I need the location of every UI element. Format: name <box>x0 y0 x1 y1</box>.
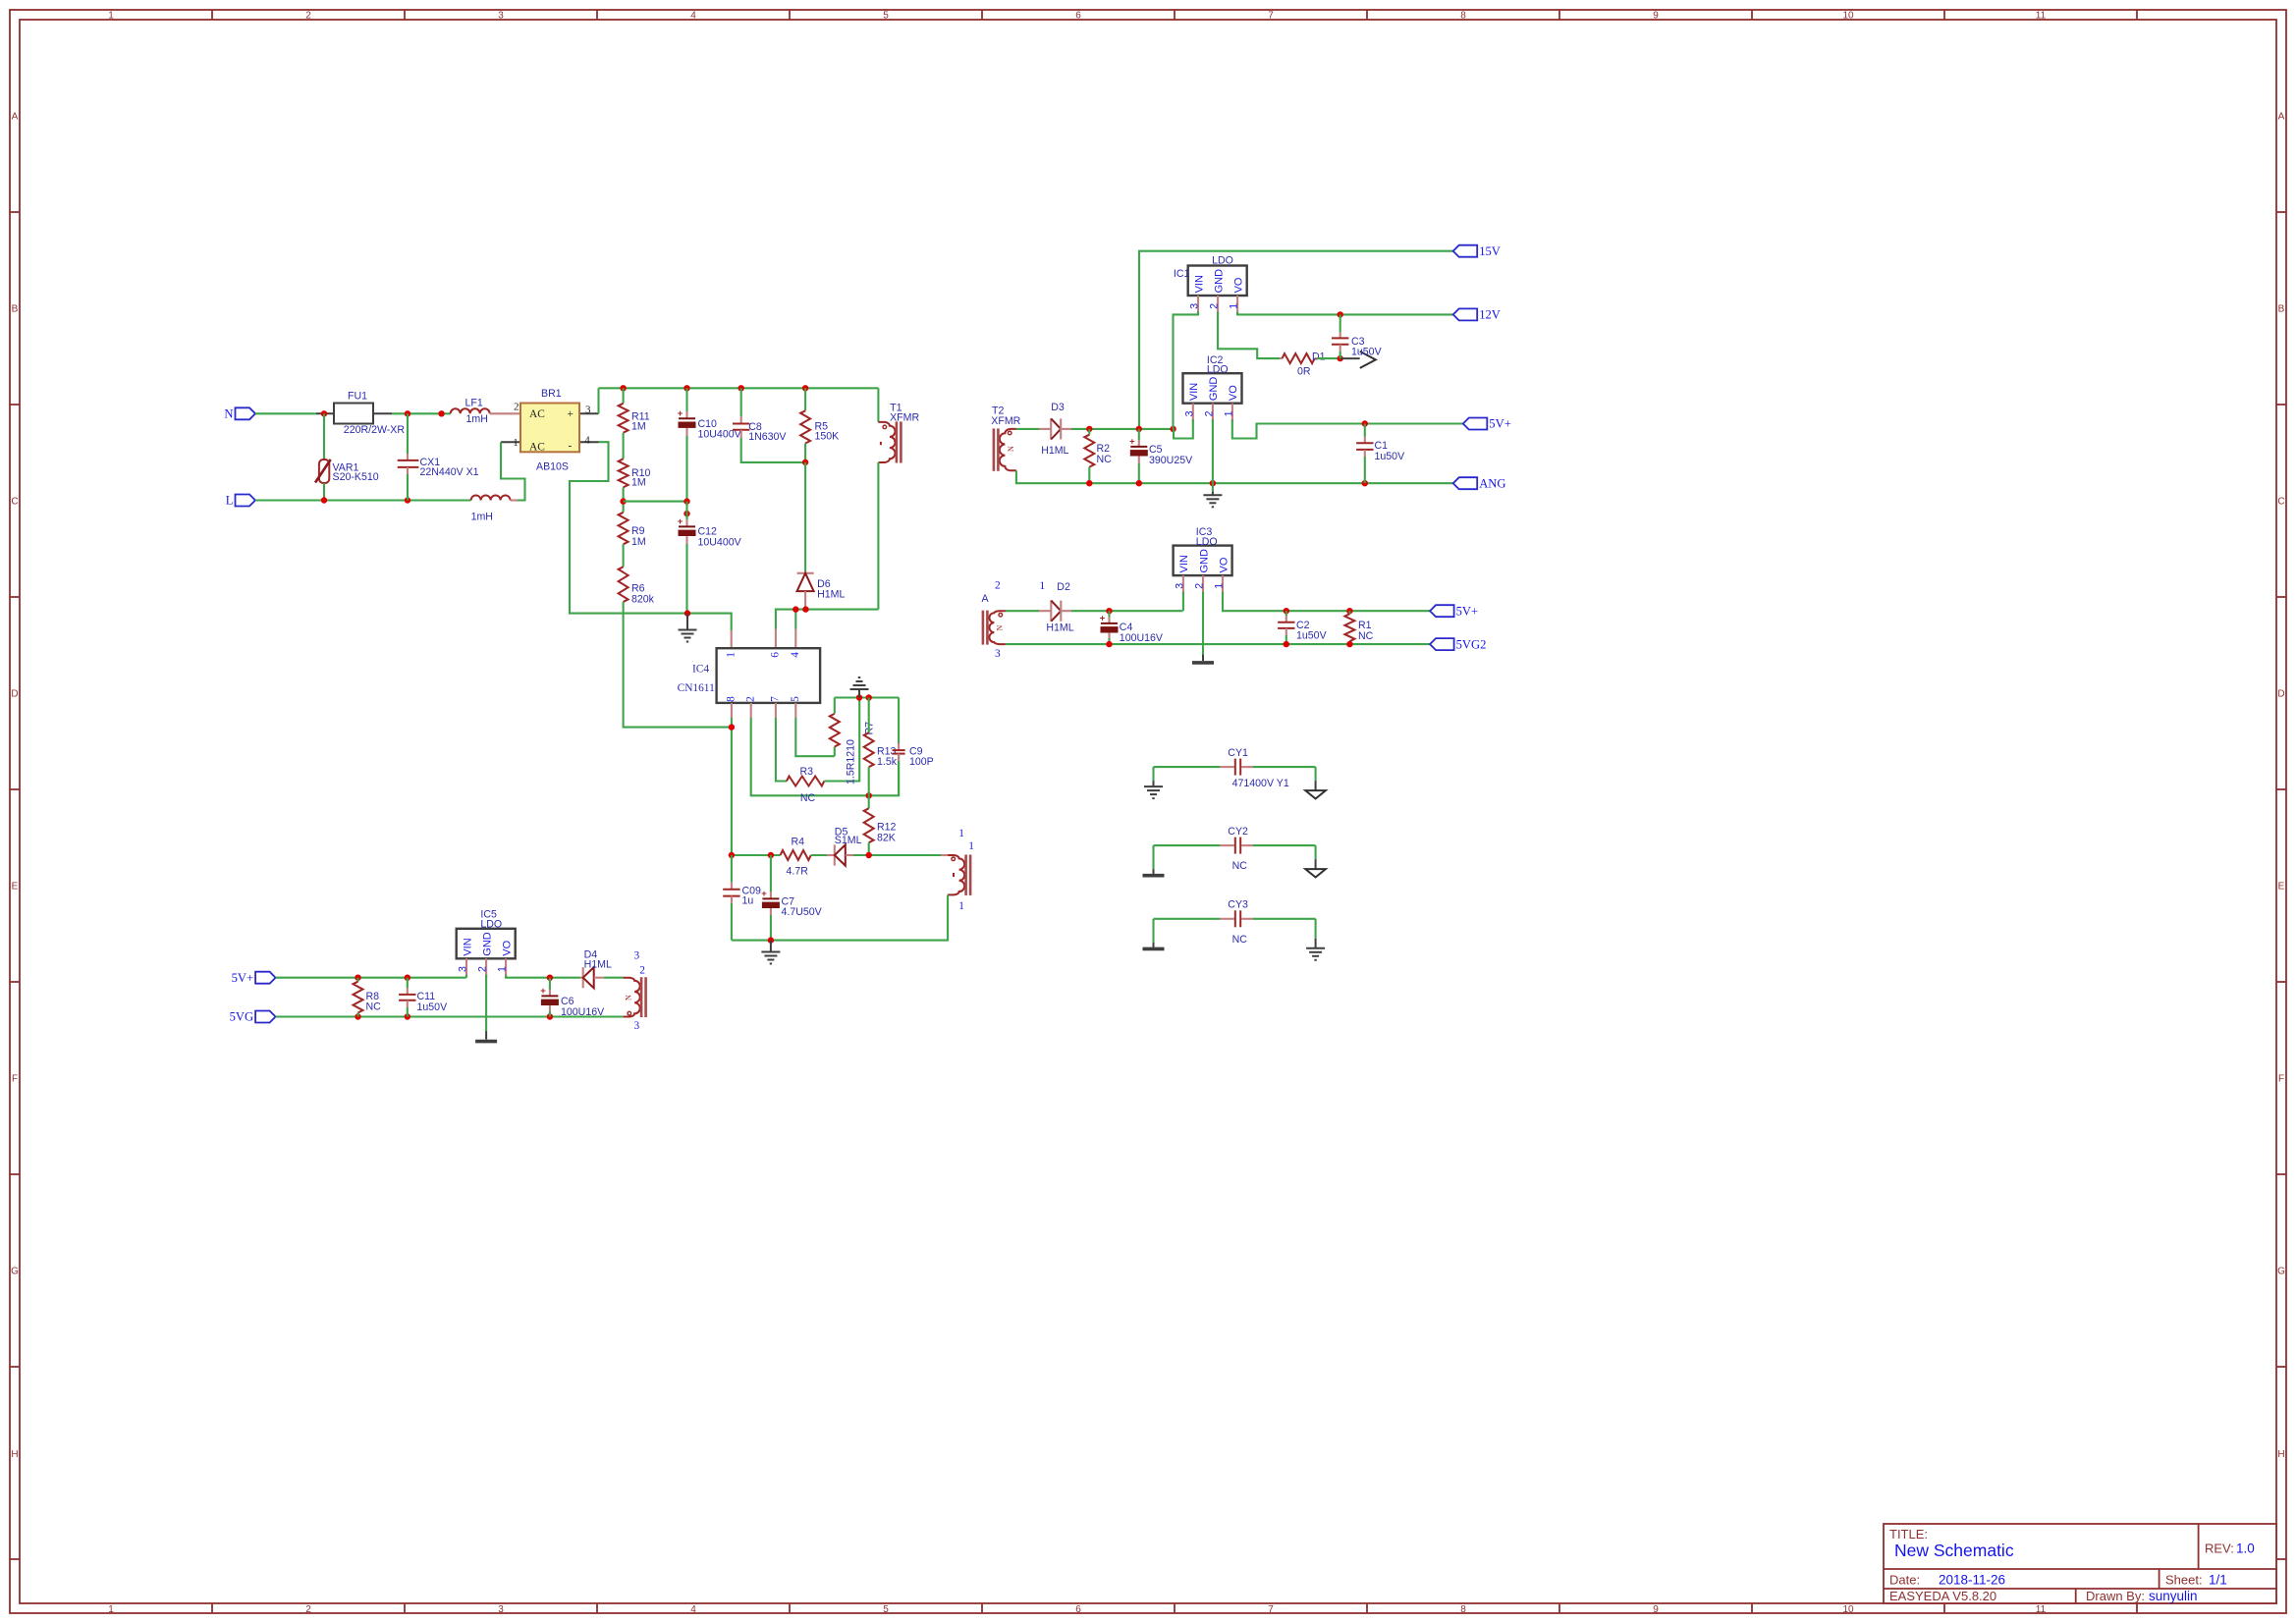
wire IC3 GND to ground <box>1202 592 1204 655</box>
capacitor C3 <box>1332 314 1383 358</box>
svg-text:2: 2 <box>744 696 756 702</box>
ground right of CY1 <box>1305 767 1326 798</box>
wire IC3 VO to 5V+ <box>1223 592 1430 612</box>
svg-text:CY3: CY3 <box>1228 899 1248 911</box>
ground right of CY2 <box>1305 845 1326 877</box>
capacitor CY2 <box>1154 826 1316 872</box>
svg-text:100U16V: 100U16V <box>1120 632 1164 644</box>
svg-text:5VG: 5VG <box>230 1010 254 1024</box>
wire IC4 pins 6,4 / D6 / T1 return <box>776 610 879 629</box>
svg-text:9: 9 <box>1653 1604 1659 1615</box>
svg-text:1: 1 <box>513 437 519 449</box>
svg-text:G: G <box>2277 1267 2285 1277</box>
wire IC4 pin5 to R7 <box>795 718 835 756</box>
ground (earth) at C12 bottom <box>679 614 697 642</box>
ground left of CY1 <box>1144 767 1163 798</box>
svg-text:CN1611: CN1611 <box>678 682 715 694</box>
resistor R12 <box>864 795 897 855</box>
svg-text:8: 8 <box>726 696 738 702</box>
wire IC5 VIN <box>465 975 467 978</box>
svg-text:4: 4 <box>790 652 801 658</box>
svg-text:1: 1 <box>108 11 114 22</box>
ground (bar) IC3 <box>1192 655 1214 663</box>
resistor R5 <box>800 388 839 462</box>
wire BR1 pin4 to IC4 pin1 <box>570 442 732 630</box>
port 5V+ <box>1463 418 1488 430</box>
wire D3 to IC1 VIN node <box>1071 428 1174 430</box>
svg-text:6: 6 <box>770 652 782 658</box>
svg-text:1.5k: 1.5k <box>877 756 898 768</box>
svg-text:2: 2 <box>1209 303 1221 309</box>
resistor D1 (0R) <box>1280 352 1326 378</box>
wire IC2 VO to 5V+ <box>1232 419 1463 438</box>
node row: R4 / D5 <box>732 854 781 856</box>
svg-text:E: E <box>12 882 19 893</box>
svg-text:220R/2W-XR: 220R/2W-XR <box>344 424 406 436</box>
svg-text:1M: 1M <box>631 477 646 489</box>
capacitor C09 <box>723 855 761 941</box>
svg-text:1u50V: 1u50V <box>417 1001 449 1013</box>
svg-text:N: N <box>996 625 1005 631</box>
svg-text:4: 4 <box>690 1604 696 1615</box>
svg-text:GND: GND <box>1213 269 1225 294</box>
svg-text:1: 1 <box>1223 410 1234 416</box>
svg-text:1/1: 1/1 <box>2209 1573 2227 1588</box>
svg-text:2018-11-26: 2018-11-26 <box>1939 1573 2005 1588</box>
ground left of CY2 <box>1143 845 1165 876</box>
svg-text:AC: AC <box>529 408 545 420</box>
wire IC3 VIN lead <box>1182 592 1184 612</box>
resistor R2 <box>1084 429 1112 483</box>
svg-text:82K: 82K <box>877 833 896 844</box>
wire IC1 VIN <box>1174 312 1199 429</box>
svg-text:+: + <box>678 516 683 527</box>
svg-text:IC4: IC4 <box>692 663 709 675</box>
svg-text:NC: NC <box>800 792 816 804</box>
capacitor C11 <box>399 978 448 1017</box>
resistor R8 <box>354 978 382 1017</box>
svg-text:2: 2 <box>995 580 1001 592</box>
svg-text:2: 2 <box>477 966 489 972</box>
svg-text:LDO: LDO <box>480 919 502 931</box>
wire inductor to BR1 pin1 <box>511 499 518 501</box>
svg-text:5: 5 <box>790 696 801 702</box>
svg-text:3: 3 <box>585 405 591 416</box>
svg-text:BR1: BR1 <box>541 388 562 400</box>
svg-text:-: - <box>569 441 573 453</box>
resistor R4 <box>781 836 811 877</box>
capacitor C7 <box>761 855 822 941</box>
svg-text:VIN: VIN <box>1188 383 1200 401</box>
wire R3 to gnd node <box>824 698 859 782</box>
title block <box>1884 1524 2276 1603</box>
svg-text:+: + <box>1100 613 1106 623</box>
svg-text:CY1: CY1 <box>1228 747 1248 759</box>
resistor R3 <box>787 766 824 804</box>
svg-text:5VG2: 5VG2 <box>1456 637 1487 651</box>
wire D5 to transformer <box>853 854 941 856</box>
svg-text:+: + <box>568 408 574 420</box>
port 5V+ (left) <box>255 972 276 984</box>
svg-text:AB10S: AB10S <box>536 460 569 472</box>
diode D2 <box>1039 580 1074 634</box>
wire R5/C8 node to D6 <box>804 462 806 571</box>
svg-text:5: 5 <box>883 1604 889 1615</box>
svg-text:2: 2 <box>1203 410 1215 416</box>
svg-text:2: 2 <box>1194 583 1206 589</box>
diode D3 <box>1039 402 1071 457</box>
varistor VAR1 <box>315 460 379 483</box>
svg-text:N: N <box>224 407 233 421</box>
svg-text:VIN: VIN <box>462 938 473 955</box>
wire D1 to C3 node <box>1317 357 1340 359</box>
svg-text:10: 10 <box>1842 1604 1854 1615</box>
svg-text:NC: NC <box>1097 454 1113 465</box>
svg-text:1mH: 1mH <box>466 413 488 425</box>
wire D4 to xfmr <box>604 977 624 979</box>
wire T2 to D3 <box>1016 428 1039 430</box>
port 5V+ (IC3) <box>1430 605 1454 617</box>
svg-text:0R: 0R <box>1297 365 1311 377</box>
wire IC1 VO = 12V row <box>1237 312 1453 315</box>
inductor 1mH (L line) <box>471 496 511 523</box>
svg-text:A: A <box>982 593 990 605</box>
svg-text:22N440V X1: 22N440V X1 <box>420 466 479 478</box>
svg-text:FU1: FU1 <box>348 391 367 403</box>
capacitor CX1 <box>398 413 479 500</box>
svg-text:11: 11 <box>2036 1604 2047 1615</box>
svg-text:2: 2 <box>514 401 519 412</box>
resistor R6 <box>619 567 655 605</box>
capacitor C1 <box>1356 424 1405 484</box>
svg-text:11: 11 <box>2036 11 2047 22</box>
svg-text:N: N <box>625 995 633 1001</box>
inductor LF1 <box>451 398 490 425</box>
svg-text:1u50V: 1u50V <box>1351 347 1383 358</box>
svg-text:S20-K510: S20-K510 <box>333 471 379 483</box>
svg-text:3: 3 <box>1183 410 1195 416</box>
svg-text:1: 1 <box>958 900 964 912</box>
svg-text:3: 3 <box>498 11 504 22</box>
svg-text:+: + <box>1129 436 1135 447</box>
svg-text:REV:: REV: <box>2205 1542 2234 1556</box>
transformer T1 <box>878 388 919 462</box>
svg-text:10U400V: 10U400V <box>698 537 742 549</box>
port 12V <box>1453 308 1478 320</box>
svg-text:1u50V: 1u50V <box>1296 630 1328 642</box>
wire R6 to IC4 pin8 <box>624 602 732 728</box>
svg-text:6: 6 <box>1075 11 1081 22</box>
wire IC4 pin2 to NC row <box>751 718 899 795</box>
svg-text:S1ML: S1ML <box>835 835 862 846</box>
wire N to fuse <box>255 412 316 414</box>
wire IC1 GND to D1 <box>1218 312 1280 359</box>
gnd wire over IC4 <box>835 696 899 698</box>
ground (earth up) <box>850 677 869 698</box>
ground (earth) under C7 <box>761 941 780 964</box>
transformer T2 <box>991 406 1020 471</box>
resistor R10 <box>619 459 651 488</box>
svg-text:LDO: LDO <box>1207 363 1229 375</box>
svg-text:H1ML: H1ML <box>584 958 612 970</box>
ANG row wire <box>1016 470 1453 483</box>
wire R4 to D5 <box>811 854 827 856</box>
svg-text:NC: NC <box>1232 860 1248 872</box>
svg-text:1: 1 <box>958 828 964 839</box>
svg-text:C: C <box>2277 497 2284 508</box>
svg-text:H1ML: H1ML <box>817 589 845 601</box>
svg-text:NC: NC <box>1358 630 1374 642</box>
svg-text:7: 7 <box>1268 1604 1274 1615</box>
svg-text:A: A <box>12 112 19 123</box>
capacitor C9 <box>893 698 934 796</box>
transformer A <box>982 580 1006 660</box>
svg-text:2: 2 <box>305 11 311 22</box>
wire A xfmr to D2 <box>1006 610 1039 612</box>
svg-text:4.7U50V: 4.7U50V <box>782 906 823 918</box>
wire D2 to IC3 VIN <box>1071 610 1182 612</box>
ground (bar) IC5 <box>475 1031 497 1042</box>
svg-text:GND: GND <box>1208 377 1220 402</box>
svg-text:AC: AC <box>529 441 545 453</box>
svg-text:VO: VO <box>1228 385 1239 401</box>
svg-text:15V: 15V <box>1479 244 1501 258</box>
svg-text:3: 3 <box>498 1604 504 1615</box>
svg-text:9: 9 <box>1653 11 1659 22</box>
svg-text:N: N <box>1007 446 1015 452</box>
svg-text:Sheet:: Sheet: <box>2165 1573 2203 1588</box>
wire R11-R10 <box>623 433 625 460</box>
svg-text:TITLE:: TITLE: <box>1889 1527 1928 1542</box>
svg-text:CY2: CY2 <box>1228 826 1248 838</box>
svg-text:D1: D1 <box>1312 352 1326 363</box>
5VG2 row wire <box>1006 643 1430 645</box>
capacitor C2 <box>1278 611 1327 644</box>
junction C12 bottom <box>684 610 690 616</box>
svg-text:D3: D3 <box>1051 402 1065 413</box>
ground right of CY3 <box>1306 919 1325 960</box>
svg-text:3: 3 <box>634 949 640 961</box>
svg-text:100U16V: 100U16V <box>561 1006 605 1018</box>
capacitor C6 <box>540 978 605 1018</box>
IC IC5 LDO <box>457 909 516 978</box>
fuse FU1 <box>316 391 405 437</box>
wire L <box>255 499 471 501</box>
wire transformer bottom <box>732 894 948 940</box>
ground left of CY3 <box>1143 919 1165 949</box>
svg-text:+: + <box>761 889 767 899</box>
wire VAR1 to L line <box>323 483 325 501</box>
5VG row wire <box>276 1015 624 1017</box>
svg-text:7: 7 <box>770 696 782 702</box>
port L <box>236 495 256 507</box>
svg-text:150K: 150K <box>815 431 840 443</box>
svg-text:GND: GND <box>481 932 493 956</box>
capacitor CY1 <box>1154 747 1316 789</box>
svg-text:390U25V: 390U25V <box>1149 455 1193 466</box>
diode D6 <box>797 571 846 610</box>
svg-text:sunyulin: sunyulin <box>2149 1589 2198 1603</box>
svg-text:XFMR: XFMR <box>890 412 919 424</box>
svg-text:VIN: VIN <box>1178 555 1190 572</box>
svg-text:A: A <box>2278 112 2285 123</box>
svg-text:LDO: LDO <box>1196 536 1218 548</box>
svg-text:VO: VO <box>1232 277 1244 293</box>
svg-text:LDO: LDO <box>1212 254 1233 266</box>
svg-text:3: 3 <box>458 966 469 972</box>
diode D5 <box>827 827 862 866</box>
svg-text:E: E <box>2278 882 2285 893</box>
capacitor C5 <box>1129 429 1193 483</box>
svg-text:5V+: 5V+ <box>1456 604 1479 618</box>
svg-text:1: 1 <box>1229 303 1240 309</box>
svg-text:New Schematic: New Schematic <box>1894 1541 2014 1560</box>
svg-text:10: 10 <box>1842 11 1854 22</box>
diode D4 <box>580 948 612 988</box>
svg-text:3: 3 <box>1189 303 1201 309</box>
port 15V <box>1453 245 1478 257</box>
wire down to VAR1 <box>323 413 325 460</box>
wire R10 to junction <box>623 487 625 512</box>
wire BR1 pin3 up to HV bus <box>597 388 599 413</box>
svg-text:1N630V: 1N630V <box>748 431 787 443</box>
svg-text:2: 2 <box>639 965 645 977</box>
port 5VG2 <box>1430 638 1454 650</box>
svg-text:8: 8 <box>1460 1604 1466 1615</box>
svg-text:4: 4 <box>690 11 696 22</box>
svg-text:1mH: 1mH <box>471 512 493 523</box>
svg-text:+: + <box>678 408 683 419</box>
svg-text:VO: VO <box>1218 557 1230 572</box>
wire IC4 pin8 down <box>731 718 733 855</box>
svg-text:L: L <box>226 494 234 508</box>
wire IC5 GND <box>485 975 487 1031</box>
svg-text:EASYEDA V5.8.20: EASYEDA V5.8.20 <box>1889 1589 1996 1603</box>
svg-text:3: 3 <box>634 1020 640 1032</box>
junction dots on N line <box>321 410 327 416</box>
svg-text:6: 6 <box>1075 1604 1081 1615</box>
svg-text:1: 1 <box>497 966 509 972</box>
wire IC2 VIN <box>1174 419 1193 438</box>
port ANG <box>1453 477 1478 489</box>
svg-text:100P: 100P <box>909 756 934 768</box>
capacitor C12 <box>678 502 742 614</box>
svg-text:4.7R: 4.7R <box>787 866 809 878</box>
ground (earth) on ANG net <box>1203 483 1222 507</box>
svg-text:1: 1 <box>108 1604 114 1615</box>
wire IC5 VO to D4 <box>506 975 580 978</box>
resistor R1 <box>1344 611 1373 644</box>
svg-text:1: 1 <box>1040 580 1046 592</box>
svg-text:C: C <box>11 497 18 508</box>
svg-text:H1ML: H1ML <box>1041 445 1068 457</box>
svg-text:XFMR: XFMR <box>991 415 1020 427</box>
svg-text:+: + <box>540 986 546 997</box>
svg-text:NC: NC <box>1232 934 1248 946</box>
wire junction to C12 <box>624 501 687 503</box>
svg-text:H: H <box>2277 1449 2284 1460</box>
port 5VG (left) <box>255 1011 276 1023</box>
svg-text:ANG: ANG <box>1479 476 1505 490</box>
IC IC1 LDO <box>1174 254 1247 314</box>
svg-text:G: G <box>11 1267 19 1277</box>
IC IC4 CN1611 <box>678 648 821 718</box>
svg-text:D: D <box>11 689 18 700</box>
IC IC2 LDO <box>1183 354 1242 422</box>
resistor R7 <box>830 698 876 785</box>
svg-text:1: 1 <box>968 840 974 852</box>
svg-text:1.0: 1.0 <box>2236 1542 2255 1556</box>
svg-text:VO: VO <box>501 940 513 955</box>
capacitor CY3 <box>1154 899 1316 946</box>
svg-text:5: 5 <box>883 11 889 22</box>
svg-text:1.5R1210: 1.5R1210 <box>846 739 857 784</box>
wire R9-R6 <box>623 544 625 567</box>
svg-text:B: B <box>2278 304 2285 315</box>
svg-text:471400V Y1: 471400V Y1 <box>1232 778 1289 789</box>
port N <box>236 407 256 419</box>
svg-text:8: 8 <box>1460 11 1466 22</box>
svg-text:1M: 1M <box>631 420 646 432</box>
wire fuse to LF1 <box>392 412 451 414</box>
svg-text:1u: 1u <box>742 895 754 907</box>
svg-text:R3: R3 <box>800 766 814 778</box>
capacitor C10 <box>678 388 742 501</box>
svg-text:12V: 12V <box>1479 308 1501 322</box>
svg-text:F: F <box>12 1074 18 1085</box>
svg-text:B: B <box>12 304 19 315</box>
svg-text:3: 3 <box>995 648 1001 660</box>
resistor R11 <box>619 388 650 432</box>
wire LF1 to BR1 pin2 <box>490 412 520 414</box>
svg-text:IC1: IC1 <box>1174 268 1190 280</box>
svg-text:LF1: LF1 <box>465 398 483 409</box>
wire 15V net <box>1139 251 1453 429</box>
svg-text:820k: 820k <box>631 594 655 606</box>
svg-text:2: 2 <box>305 1604 311 1615</box>
bridge rectifier BR1 <box>501 388 599 472</box>
resistor R13 <box>864 698 898 796</box>
5V+ row wire <box>276 977 466 979</box>
svg-text:5V+: 5V+ <box>232 971 254 985</box>
capacitor C8 <box>733 388 805 462</box>
svg-text:H1ML: H1ML <box>1046 622 1073 633</box>
resistor R9 <box>619 513 646 548</box>
transformer (IC5 aux, mirrored) <box>624 949 646 1032</box>
svg-text:5V+: 5V+ <box>1489 417 1511 431</box>
svg-text:Drawn By:: Drawn By: <box>2086 1589 2145 1603</box>
svg-text:VIN: VIN <box>1193 275 1205 293</box>
wire T1 bottom <box>877 462 879 610</box>
wire IC2 GND <box>1212 419 1214 483</box>
wire IC4 pin7 to R3 <box>776 718 787 782</box>
svg-text:H: H <box>11 1449 18 1460</box>
transformer (primary aux) <box>948 828 974 912</box>
svg-text:7: 7 <box>1268 11 1274 22</box>
ground (arrow right) <box>1340 352 1376 368</box>
svg-text:NC: NC <box>366 1001 382 1012</box>
svg-text:GND: GND <box>1198 549 1210 573</box>
svg-text:D2: D2 <box>1057 581 1070 593</box>
svg-text:4: 4 <box>584 434 590 446</box>
svg-text:D: D <box>2277 689 2284 700</box>
svg-text:F: F <box>2278 1074 2284 1085</box>
svg-text:1: 1 <box>726 652 738 658</box>
svg-text:1u50V: 1u50V <box>1375 451 1406 462</box>
svg-text:1M: 1M <box>631 536 646 548</box>
svg-text:Date:: Date: <box>1889 1573 1920 1588</box>
svg-text:3: 3 <box>1174 583 1185 589</box>
